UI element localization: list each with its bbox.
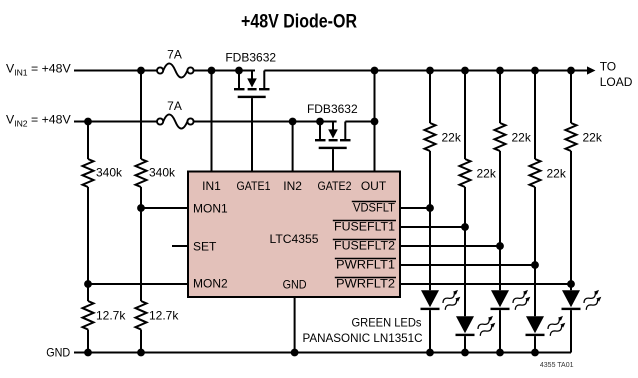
svg-text:GREEN LEDs: GREEN LEDs	[352, 315, 422, 329]
svg-text:LOAD: LOAD	[600, 75, 633, 89]
svg-text:FUSEFLT2: FUSEFLT2	[334, 239, 395, 253]
svg-text:IN1: IN1	[202, 179, 221, 193]
svg-text:PWRFLT2: PWRFLT2	[336, 277, 395, 291]
svg-text:PWRFLT1: PWRFLT1	[336, 258, 395, 272]
svg-text:IN2: IN2	[283, 179, 302, 193]
svg-text:MON2: MON2	[193, 277, 228, 291]
svg-text:GATE1: GATE1	[237, 179, 271, 193]
svg-text:VDSFLT: VDSFLT	[353, 201, 396, 215]
svg-text:340k: 340k	[96, 166, 123, 180]
svg-text:MON1: MON1	[193, 201, 228, 215]
svg-text:GND: GND	[46, 345, 70, 359]
svg-text:FDB3632: FDB3632	[307, 102, 358, 116]
svg-text:7A: 7A	[167, 99, 182, 113]
svg-text:OUT: OUT	[361, 179, 387, 193]
svg-text:SET: SET	[193, 240, 217, 254]
svg-text:22k: 22k	[477, 166, 497, 180]
svg-text:12.7k: 12.7k	[149, 309, 179, 323]
svg-text:22k: 22k	[512, 130, 532, 144]
svg-text:GATE2: GATE2	[318, 179, 352, 193]
svg-text:22k: 22k	[547, 166, 567, 180]
svg-text:4355 TA01: 4355 TA01	[540, 362, 574, 369]
svg-text:FDB3632: FDB3632	[225, 51, 276, 65]
svg-text:22k: 22k	[583, 130, 603, 144]
svg-text:+48V Diode-OR: +48V Diode-OR	[241, 12, 357, 33]
svg-text:22k: 22k	[442, 130, 462, 144]
svg-text:340k: 340k	[149, 166, 176, 180]
svg-text:TO: TO	[600, 60, 616, 74]
svg-text:FUSEFLT1: FUSEFLT1	[334, 220, 395, 234]
svg-text:LTC4355: LTC4355	[270, 232, 319, 246]
svg-text:7A: 7A	[167, 48, 182, 62]
svg-text:PANASONIC LN1351C: PANASONIC LN1351C	[303, 331, 423, 345]
svg-text:GND: GND	[283, 277, 307, 291]
svg-text:12.7k: 12.7k	[96, 309, 126, 323]
